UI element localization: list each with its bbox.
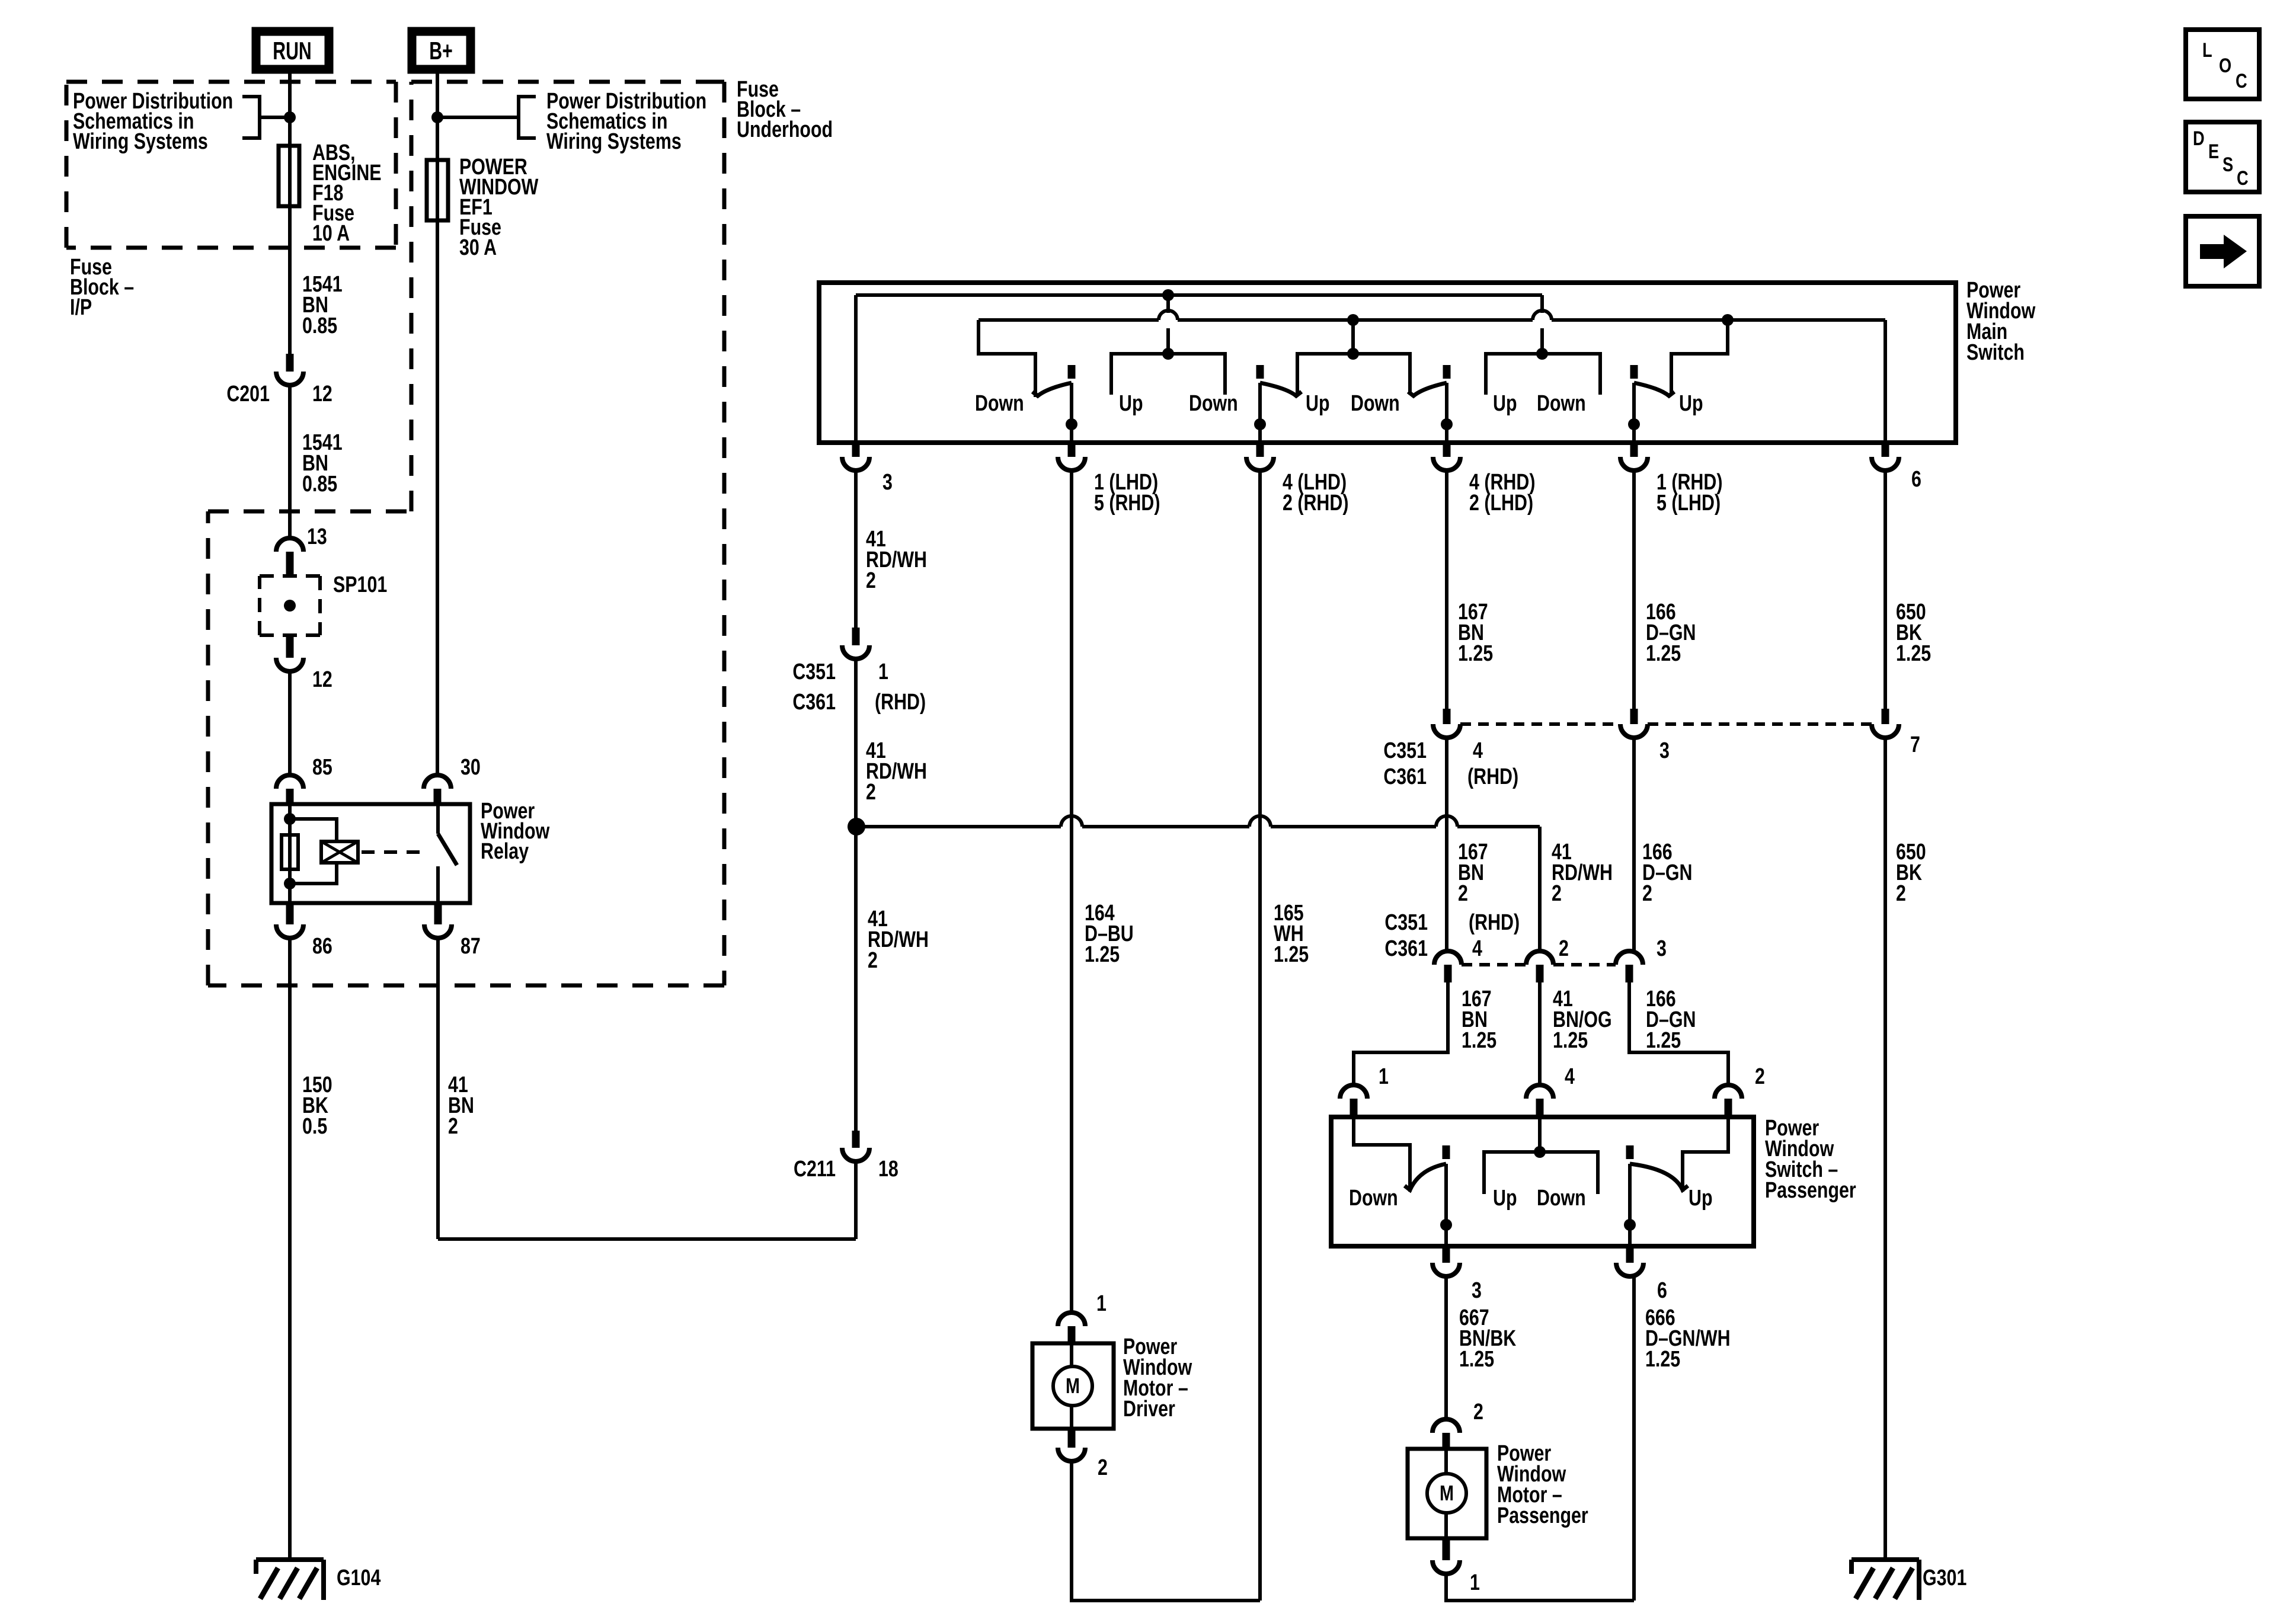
node 41 RD/WH junction: [848, 818, 865, 836]
svg-text:1.25: 1.25: [1462, 1028, 1496, 1053]
connector main switch pin at x=1444: [852, 443, 860, 457]
svg-text:4: 4: [1473, 738, 1483, 763]
svg-text:2: 2: [1458, 881, 1468, 906]
wire 41 BN/OG 1.25 to passenger switch pin 4: [1538, 982, 1542, 1085]
wire 1541 BN 0.85 upper segment: [288, 206, 292, 356]
svg-text:1.25: 1.25: [1459, 1347, 1494, 1372]
svg-text:87: 87: [461, 934, 481, 959]
svg-text:1: 1: [1470, 1570, 1480, 1595]
connector driver motor pin 2: [1068, 1429, 1076, 1448]
connector passenger switch pin 6: [1626, 1246, 1634, 1263]
connector main switch pin at x=1808: [1068, 443, 1076, 457]
node relay coil top: [284, 813, 296, 825]
wire relay 87 to C211 horizontal: [438, 1237, 856, 1241]
connector passenger switch pin 4: [1526, 1085, 1553, 1099]
svg-text:3: 3: [1657, 936, 1667, 961]
svg-text:1.25: 1.25: [1896, 641, 1931, 666]
svg-text:3: 3: [1659, 738, 1670, 763]
contact bracket passenger Up/Down: [1484, 1152, 1598, 1194]
node relay coil bottom: [284, 878, 296, 889]
wire 41 RD/WH 2 to junction: [854, 659, 858, 827]
ground G104: [256, 1557, 324, 1562]
svg-text:85: 85: [312, 755, 332, 780]
svg-text:2: 2: [1896, 881, 1906, 906]
connector passenger switch pin 3: [1443, 1246, 1450, 1263]
svg-text:3: 3: [882, 470, 893, 495]
connector passenger switch pin 1: [1340, 1085, 1367, 1099]
svg-text:D: D: [2193, 127, 2205, 150]
svg-text:SP101: SP101: [333, 572, 387, 597]
svg-text:Up: Up: [1493, 1186, 1517, 1211]
relay switch contact: [436, 804, 440, 834]
svg-text:Up: Up: [1306, 391, 1330, 416]
svg-text:7: 7: [1910, 732, 1920, 757]
splice SP101 dashed box: [260, 574, 320, 578]
connector relay pin 87: [434, 903, 442, 924]
resistor inside relay: [282, 835, 298, 869]
svg-text:C351: C351: [792, 660, 836, 684]
svg-text:Down: Down: [1537, 1186, 1586, 1211]
connector C351/C361 pin 3 (row A): [1630, 709, 1638, 724]
wire to relay coil terminal 85: [288, 671, 292, 775]
svg-text:Up: Up: [1689, 1186, 1713, 1211]
connector driver motor pin 1: [1058, 1313, 1085, 1326]
fuse EF1 POWER WINDOW 30A: [436, 160, 439, 220]
svg-text:M: M: [1066, 1374, 1080, 1398]
svg-text:2: 2: [868, 948, 878, 973]
svg-text:6: 6: [1657, 1278, 1667, 1303]
connector passenger motor pin 1: [1443, 1538, 1450, 1560]
wire driver motor return loop: [1072, 1461, 1260, 1601]
wire B+ feed: [436, 69, 439, 160]
svg-text:Passenger: Passenger: [1497, 1503, 1588, 1528]
wire 167 BN 2 between connectors: [1445, 738, 1448, 951]
connector row B dashed links: [1462, 963, 1526, 966]
svg-text:1.25: 1.25: [1458, 641, 1493, 666]
motor Power Window Motor - Driver: [1032, 1343, 1114, 1429]
svg-text:1.25: 1.25: [1085, 942, 1120, 967]
svg-text:5 (RHD): 5 (RHD): [1094, 491, 1160, 516]
node B+ branch: [431, 111, 443, 123]
relay box Power Window Relay: [271, 804, 470, 903]
connector C211 pin 18: [852, 1131, 860, 1148]
svg-text:4: 4: [1472, 936, 1482, 961]
switch blade window3 to pin 4(RHD): [1443, 365, 1451, 379]
wire coil bracket top: [290, 819, 337, 841]
svg-text:0.85: 0.85: [302, 472, 337, 497]
motor Power Window Motor - Passenger: [1408, 1449, 1486, 1538]
svg-text:C: C: [2236, 69, 2247, 92]
connector C351/C361 pin 7 (row A): [1882, 709, 1889, 724]
svg-text:I/P: I/P: [70, 295, 92, 320]
wire 166 D-GN 1.25 from pin 1(RHD): [1632, 470, 1636, 709]
wire 41 RD/WH bus to passenger switch (hops 3 wires): [856, 825, 1061, 828]
connector row A dashed links: [1460, 722, 1620, 726]
node RUN branch: [284, 111, 296, 123]
svg-text:Down: Down: [1537, 391, 1586, 416]
wire bus A inside main switch: [856, 293, 1542, 297]
connector C201 pin 12: [286, 354, 294, 372]
connector C351/C361 pin 4 (row A): [1443, 709, 1451, 724]
wire 41 RD/WH down to C211: [854, 827, 858, 1131]
svg-text:12: 12: [312, 667, 332, 692]
icon arrow box: [2186, 216, 2259, 286]
svg-text:1.25: 1.25: [1646, 641, 1681, 666]
connector relay pin 30: [424, 775, 451, 789]
contact feed window4 Up: [1671, 320, 1728, 395]
svg-text:Up: Up: [1679, 391, 1703, 416]
contact bracket 1 Up/Down: [1111, 354, 1225, 395]
wire bus B inside main switch: [978, 318, 1159, 322]
svg-text:C361: C361: [792, 690, 836, 715]
wire pin3 riser: [854, 295, 858, 443]
connector C351/C361 pin 2 (row B): [1526, 951, 1553, 965]
wire passenger motor return: [1446, 1574, 1634, 1601]
svg-text:2 (RHD): 2 (RHD): [1283, 491, 1348, 516]
svg-text:2: 2: [448, 1114, 458, 1139]
svg-text:Passenger: Passenger: [1765, 1178, 1856, 1203]
connector passenger switch pin 2: [1715, 1085, 1742, 1099]
svg-text:Down: Down: [1351, 391, 1400, 416]
svg-text:2: 2: [1559, 936, 1569, 961]
contact feed window1 Down: [978, 320, 1035, 397]
wire 164 D-BU 1.25 driver motor feed: [1070, 470, 1073, 1313]
svg-text:C361: C361: [1383, 764, 1427, 789]
svg-text:O: O: [2219, 54, 2231, 77]
fuse block I/P dashed box: [66, 80, 396, 84]
svg-text:2 (LHD): 2 (LHD): [1469, 491, 1533, 516]
wire coil bracket bottom: [290, 863, 337, 884]
connector relay pin 86: [286, 903, 294, 924]
svg-text:C351: C351: [1383, 738, 1427, 763]
svg-text:Driver: Driver: [1123, 1397, 1175, 1422]
connector main switch pin at x=2757: [1630, 443, 1638, 457]
svg-text:2: 2: [1755, 1064, 1765, 1089]
svg-text:L: L: [2202, 39, 2212, 62]
svg-text:Up: Up: [1493, 391, 1517, 416]
svg-text:Wiring Systems: Wiring Systems: [73, 129, 208, 154]
svg-text:2: 2: [1098, 1455, 1108, 1480]
svg-text:M: M: [1440, 1481, 1454, 1505]
contact bracket 2 Up/Down: [1297, 354, 1410, 395]
svg-text:0.85: 0.85: [302, 313, 337, 338]
svg-text:Up: Up: [1119, 391, 1143, 416]
svg-text:12: 12: [312, 382, 332, 406]
wire 167 BN 1.25 from pin 4(RHD): [1445, 470, 1448, 709]
svg-text:1.25: 1.25: [1553, 1028, 1588, 1053]
svg-text:1.25: 1.25: [1274, 942, 1309, 967]
svg-text:Down: Down: [975, 391, 1024, 416]
svg-text:0.5: 0.5: [302, 1114, 327, 1139]
switch blade passenger to pin 6: [1626, 1145, 1634, 1159]
svg-text:S: S: [2223, 153, 2233, 176]
connector C351/C361 pin 3 (row B): [1616, 951, 1643, 965]
svg-text:86: 86: [312, 934, 332, 959]
label B+ (battery voltage tag): [412, 31, 471, 69]
switch blade passenger to pin 3: [1443, 1145, 1450, 1159]
terminal 12 connector below SP101: [286, 635, 294, 658]
wire 150 BK 0.5 to ground: [288, 938, 292, 1560]
svg-text:30: 30: [461, 755, 481, 780]
svg-text:2: 2: [866, 780, 876, 805]
switch blade window1 to pin 1(LHD): [1068, 365, 1076, 379]
svg-text:C211: C211: [794, 1157, 836, 1182]
svg-text:2: 2: [1642, 881, 1652, 906]
switch blade window2 to pin 4(LHD): [1256, 365, 1264, 379]
svg-text:Down: Down: [1349, 1186, 1398, 1211]
svg-text:1: 1: [1096, 1291, 1107, 1316]
contact bracket 3 Up/Down: [1486, 354, 1600, 395]
svg-text:6: 6: [1911, 467, 1921, 492]
connector C351/C361 pin 1: [852, 628, 860, 645]
wire 41 BN 2 from relay 87: [436, 938, 440, 1239]
svg-text:C: C: [2237, 167, 2249, 190]
wire 166 D-GN 1.25 to passenger switch pin 2: [1629, 982, 1728, 1085]
label RUN (ignition voltage tag): [256, 31, 329, 69]
svg-text:1.25: 1.25: [1645, 1347, 1680, 1372]
svg-text:(RHD): (RHD): [1469, 910, 1520, 935]
contact feed passenger Up: [1683, 1117, 1728, 1192]
svg-text:G301: G301: [1923, 1566, 1966, 1590]
icon DESC box: [2186, 122, 2259, 192]
svg-text:2: 2: [1473, 1400, 1483, 1425]
svg-text:Underhood: Underhood: [737, 117, 833, 142]
svg-text:C201: C201: [226, 382, 270, 406]
wire riser bus A right end to bracket 3 (hops bus B): [1540, 295, 1544, 313]
svg-text:E: E: [2208, 140, 2219, 163]
svg-text:2: 2: [866, 568, 876, 593]
wire bus B right end to pin 6: [1884, 320, 1887, 443]
svg-text:C351: C351: [1384, 910, 1428, 935]
wire riser bus A to bracket 1 (hops bus B): [1166, 295, 1170, 313]
svg-text:1: 1: [1379, 1064, 1389, 1089]
wire B+ to relay terminal 30: [436, 220, 439, 775]
ground G301: [1851, 1557, 1919, 1562]
bracket to Power Distribution note (left): [242, 97, 260, 138]
svg-text:Wiring Systems: Wiring Systems: [546, 129, 682, 154]
wire 650 BK 1.25 from pin 6: [1884, 470, 1887, 709]
wire 166 D-GN 2 between connectors: [1632, 738, 1636, 951]
svg-text:RUN: RUN: [273, 37, 311, 65]
svg-text:(RHD): (RHD): [1467, 764, 1518, 789]
svg-text:2: 2: [1552, 881, 1562, 906]
fuse block Underhood dashed outline: [411, 80, 724, 84]
relay coil (solenoid) symbol: [321, 841, 358, 863]
svg-text:(RHD): (RHD): [875, 690, 926, 715]
node bus B to Up contact of window 4: [1722, 314, 1734, 326]
svg-text:G104: G104: [337, 1566, 380, 1590]
terminal 13 connector: [288, 511, 292, 538]
wire 666 D-GN/WH 1.25 from passenger switch pin 6: [1632, 1276, 1636, 1601]
wire 41 RD/WH 2 from pin 3: [854, 470, 858, 628]
svg-text:30 A: 30 A: [459, 235, 497, 260]
svg-text:13: 13: [307, 524, 327, 549]
wire 167 BN 1.25 to passenger switch pin 1: [1354, 982, 1448, 1085]
svg-text:18: 18: [878, 1157, 898, 1182]
relay coil branch wire left: [288, 804, 292, 903]
svg-text:1: 1: [878, 660, 888, 684]
node bus B to bracket 2: [1347, 314, 1359, 326]
connector main switch pin at x=2126: [1256, 443, 1264, 457]
wire 650 BK 2 to G301: [1884, 738, 1887, 1560]
svg-text:5 (LHD): 5 (LHD): [1657, 491, 1721, 516]
svg-text:Switch: Switch: [1966, 340, 2025, 365]
connector main switch pin at x=3181: [1882, 443, 1889, 457]
svg-text:10 A: 10 A: [312, 221, 350, 246]
svg-text:3: 3: [1472, 1278, 1482, 1303]
connector main switch pin at x=2441: [1443, 443, 1451, 457]
node bus A to center bracket: [1162, 289, 1174, 301]
svg-text:Down: Down: [1189, 391, 1238, 416]
switch box Power Window Main Switch: [819, 283, 1956, 443]
wire 667 BN/BK 1.25 from passenger switch pin 3: [1444, 1276, 1448, 1419]
svg-text:C361: C361: [1384, 936, 1428, 961]
switch blade window4 to pin 1(RHD): [1630, 365, 1638, 379]
svg-text:4: 4: [1565, 1064, 1575, 1089]
bracket to Power Distribution note (right): [519, 97, 536, 138]
svg-text:Relay: Relay: [481, 839, 529, 864]
connector relay pin 85: [276, 775, 303, 789]
wire RUN feed: [288, 69, 292, 146]
wire 165 WH 1.25: [1258, 470, 1262, 1601]
svg-text:1.25: 1.25: [1646, 1028, 1681, 1053]
fuse F18 ABS ENGINE 10A: [288, 146, 292, 206]
contact feed passenger Down: [1354, 1117, 1410, 1192]
relay actuator dashed link: [362, 850, 424, 854]
icon LOC box: [2186, 30, 2259, 99]
connector C351/C361 pin 4 (row B): [1434, 951, 1462, 965]
switch box Power Window Switch - Passenger: [1331, 1117, 1754, 1246]
svg-text:B+: B+: [429, 37, 452, 65]
